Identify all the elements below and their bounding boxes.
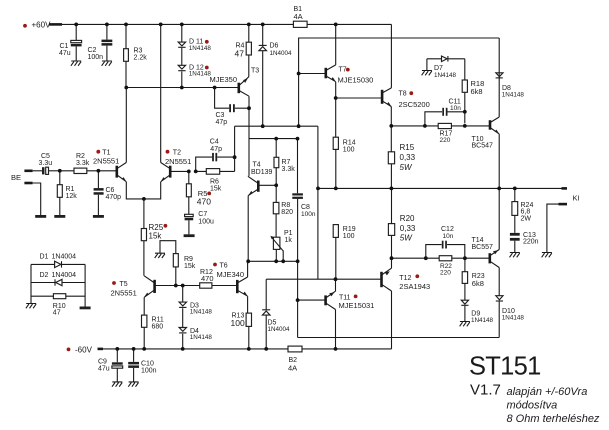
svg-text:V1.7: V1.7 bbox=[470, 382, 501, 399]
capacitor C7 bbox=[185, 211, 214, 235]
svg-text:C2: C2 bbox=[88, 47, 97, 54]
svg-text:BD139: BD139 bbox=[251, 169, 273, 176]
svg-text:C4: C4 bbox=[210, 139, 219, 146]
svg-text:3.3k: 3.3k bbox=[76, 160, 90, 167]
svg-text:BE: BE bbox=[11, 173, 21, 182]
diode D7 with ground bbox=[427, 56, 465, 79]
transistor T3 bbox=[210, 68, 260, 176]
svg-text:100n: 100n bbox=[301, 211, 316, 218]
svg-text:BC547: BC547 bbox=[472, 143, 494, 150]
svg-text:100: 100 bbox=[343, 147, 355, 154]
potentiometer P1 bbox=[270, 230, 292, 261]
wire T8 base bbox=[336, 97, 382, 99]
transistor T4 bbox=[248, 162, 276, 262]
svg-text:15k: 15k bbox=[210, 185, 222, 192]
svg-text:15k: 15k bbox=[149, 232, 163, 241]
svg-text:R25: R25 bbox=[149, 223, 164, 232]
svg-text:47u: 47u bbox=[59, 50, 71, 57]
svg-text:47u: 47u bbox=[98, 366, 110, 373]
wire inner bottom (to D10) bbox=[298, 337, 500, 339]
resistor R15 bbox=[388, 126, 415, 188]
svg-text:C1: C1 bbox=[60, 43, 69, 50]
svg-text:MJE15030: MJE15030 bbox=[338, 76, 374, 85]
resistor R6 bbox=[196, 169, 235, 193]
svg-text:1N4148: 1N4148 bbox=[189, 71, 212, 78]
svg-text:0,33: 0,33 bbox=[400, 153, 416, 162]
svg-text:220n: 220n bbox=[523, 239, 539, 246]
transistor T11 bbox=[326, 279, 375, 349]
svg-text:0,33: 0,33 bbox=[400, 224, 416, 233]
capacitor C1 bbox=[59, 24, 82, 61]
transistor T2 bbox=[144, 24, 191, 199]
svg-text:1N4004: 1N4004 bbox=[52, 272, 77, 279]
wire T8 emitter node to T10 base bbox=[391, 125, 490, 127]
wire T5 base to T6 bbox=[155, 285, 238, 287]
svg-text:2N5551: 2N5551 bbox=[165, 157, 191, 166]
capacitor C6 bbox=[94, 171, 122, 215]
diode D6 bbox=[259, 24, 292, 126]
capacitor C13 bbox=[510, 232, 539, 253]
svg-text:8 Ohm terheléshez: 8 Ohm terheléshez bbox=[507, 413, 600, 425]
wire C4R6 right column bbox=[234, 126, 236, 171]
svg-text:R20: R20 bbox=[400, 214, 415, 223]
svg-text:100: 100 bbox=[231, 318, 245, 328]
svg-text:47p: 47p bbox=[210, 146, 222, 153]
ground bar under D1 network right bbox=[80, 307, 91, 310]
svg-text:470: 470 bbox=[197, 196, 211, 206]
svg-text:1N4148: 1N4148 bbox=[471, 317, 494, 324]
capacitor C9 bbox=[98, 349, 123, 382]
diode D9 bbox=[461, 300, 493, 324]
resistor R25 bbox=[141, 199, 167, 276]
svg-text:5W: 5W bbox=[400, 163, 413, 172]
wire y126.2 to x318 column corner bbox=[317, 126, 319, 279]
wire D8/T10 collector column bbox=[498, 38, 500, 117]
fuse B2 bbox=[288, 346, 302, 372]
diode D2 bbox=[31, 272, 85, 286]
wire stub2 to ground bbox=[33, 183, 41, 215]
transistor T14 bbox=[472, 188, 500, 295]
svg-text:MJE350: MJE350 bbox=[210, 75, 238, 84]
ground bar under C7 bbox=[184, 234, 195, 237]
diode D11 bbox=[178, 24, 211, 65]
transistor T7 bbox=[326, 24, 374, 137]
resistor R2 bbox=[60, 153, 117, 174]
ground under C9 bbox=[112, 382, 122, 387]
capacitor C3 bbox=[215, 88, 249, 127]
svg-text:C6: C6 bbox=[106, 187, 115, 194]
wire y261 bias node bbox=[248, 260, 297, 262]
ground bar under R1 bbox=[54, 215, 65, 218]
wire x298 column top (y38 line riser) bbox=[299, 38, 500, 126]
resistor R18 bbox=[462, 59, 484, 112]
resistor R17 bbox=[438, 112, 465, 144]
resistor R22 bbox=[439, 256, 452, 277]
svg-text:6k8: 6k8 bbox=[471, 87, 483, 96]
svg-text:R9: R9 bbox=[184, 256, 193, 263]
svg-text:C8: C8 bbox=[301, 204, 310, 211]
resistor R14 bbox=[333, 137, 356, 188]
ground bar under stub2 bbox=[35, 215, 46, 218]
svg-text:4A: 4A bbox=[294, 12, 303, 21]
diode D5 bbox=[262, 279, 290, 349]
node +60V label bbox=[23, 21, 51, 30]
wire T2 base bbox=[170, 170, 189, 172]
transistor T12 bbox=[382, 268, 431, 349]
resistor R10 bbox=[31, 294, 85, 317]
svg-text:1N4004: 1N4004 bbox=[268, 326, 291, 333]
ground under C2 bbox=[102, 61, 112, 66]
svg-text:2.2k: 2.2k bbox=[134, 55, 148, 62]
svg-text:-60V: -60V bbox=[75, 345, 93, 354]
svg-text:470p: 470p bbox=[106, 194, 122, 201]
svg-text:2SC5200: 2SC5200 bbox=[399, 100, 430, 109]
svg-text:3.3u: 3.3u bbox=[39, 160, 53, 167]
wire C8 column to T11 base corner bbox=[297, 261, 299, 337]
svg-text:R14: R14 bbox=[343, 140, 356, 147]
svg-text:MJE340: MJE340 bbox=[217, 270, 245, 279]
svg-text:T3: T3 bbox=[251, 68, 259, 75]
svg-text:alapján +/-60Vra: alapján +/-60Vra bbox=[507, 386, 588, 398]
svg-text:15k: 15k bbox=[184, 263, 196, 270]
svg-text:R19: R19 bbox=[343, 226, 356, 233]
wire +60V input stub bbox=[49, 23, 62, 26]
svg-text:T14: T14 bbox=[472, 237, 484, 244]
svg-text:D1: D1 bbox=[40, 254, 49, 261]
svg-text:módosítva: módosítva bbox=[507, 399, 558, 411]
wire input stub lower bbox=[24, 182, 32, 185]
svg-text:10n: 10n bbox=[450, 105, 461, 112]
svg-text:2SA1943: 2SA1943 bbox=[399, 282, 430, 291]
transistor T5 bbox=[111, 276, 155, 315]
svg-text:R15: R15 bbox=[400, 143, 415, 152]
resistor R19 bbox=[333, 225, 356, 280]
svg-text:D2: D2 bbox=[40, 272, 49, 279]
svg-text:1N4148: 1N4148 bbox=[190, 334, 213, 341]
wire T12 emitter node / snubber wire bbox=[392, 257, 490, 259]
svg-text:680: 680 bbox=[152, 324, 164, 331]
wire T7 base bbox=[299, 73, 326, 75]
svg-text:2N5551: 2N5551 bbox=[93, 156, 119, 165]
svg-text:MJE15031: MJE15031 bbox=[339, 301, 375, 310]
svg-text:C7: C7 bbox=[198, 211, 207, 218]
svg-text:220: 220 bbox=[440, 137, 451, 144]
wire y138.6 VAS collector node bbox=[249, 138, 298, 140]
svg-text:1N4148: 1N4148 bbox=[502, 91, 525, 98]
wire input stub upper bbox=[24, 170, 32, 173]
svg-text:10n: 10n bbox=[443, 233, 454, 240]
capacitor C11 bbox=[425, 98, 465, 126]
fuse B1 bbox=[293, 6, 307, 27]
wire D1 network right vertical bbox=[84, 264, 86, 306]
svg-text:220: 220 bbox=[440, 270, 451, 277]
node -60V label bbox=[67, 345, 93, 354]
resistor R4 bbox=[235, 24, 252, 76]
svg-text:T7: T7 bbox=[339, 67, 347, 74]
wire T8 collector drop from rail bbox=[390, 24, 392, 88]
svg-text:R8: R8 bbox=[281, 202, 290, 209]
svg-text:100n: 100n bbox=[88, 54, 104, 61]
resistor R11 bbox=[142, 315, 164, 349]
wire stub to C5 bbox=[33, 170, 42, 172]
resistor R3 bbox=[124, 24, 148, 87]
capacitor C8 bbox=[292, 139, 316, 262]
capacitor C2 bbox=[88, 24, 113, 61]
ground under C1 bbox=[71, 61, 81, 66]
resistor R13 bbox=[231, 312, 252, 349]
diode D1 bbox=[31, 254, 85, 268]
transistor T10 bbox=[472, 117, 500, 188]
diode D12 bbox=[178, 65, 211, 88]
svg-text:1N4148: 1N4148 bbox=[434, 72, 457, 79]
wire midline output bus bbox=[318, 187, 562, 189]
svg-text:100n: 100n bbox=[141, 368, 157, 375]
svg-text:2N5551: 2N5551 bbox=[111, 289, 137, 298]
svg-text:T2: T2 bbox=[173, 150, 181, 157]
diode D4 bbox=[179, 327, 212, 349]
wire y126 node (C4R6 top to box column) bbox=[235, 125, 318, 127]
svg-text:T8: T8 bbox=[399, 91, 407, 98]
wire -60V stub bbox=[98, 348, 104, 351]
ground bar under C6 bbox=[93, 215, 104, 218]
svg-text:1N4004: 1N4004 bbox=[270, 50, 293, 57]
svg-text:D6: D6 bbox=[270, 43, 279, 50]
resistor R20 bbox=[388, 188, 416, 268]
wire KI output stub bbox=[562, 187, 568, 190]
ground under D1 network left bbox=[26, 304, 36, 309]
capacitor C12 bbox=[426, 226, 465, 258]
svg-text:R2: R2 bbox=[76, 153, 85, 160]
resistor R12 bbox=[200, 269, 214, 288]
wire T11 base bbox=[298, 299, 326, 301]
svg-text:BC557: BC557 bbox=[472, 244, 494, 251]
svg-text:R3: R3 bbox=[134, 48, 143, 55]
svg-text:4A: 4A bbox=[288, 364, 297, 373]
wire +60V rail bbox=[62, 23, 391, 25]
svg-text:6k8: 6k8 bbox=[472, 279, 484, 288]
capacitor C4 bbox=[196, 139, 235, 172]
svg-text:+60V: +60V bbox=[32, 21, 52, 30]
svg-text:T12: T12 bbox=[399, 275, 411, 282]
resistor R7 bbox=[274, 139, 295, 186]
svg-text:T4: T4 bbox=[253, 162, 261, 169]
ground under C13 bbox=[510, 253, 520, 258]
svg-text:T5: T5 bbox=[120, 281, 128, 288]
svg-text:2W: 2W bbox=[521, 215, 532, 222]
svg-text:470: 470 bbox=[201, 274, 214, 283]
ground under R9 hook bbox=[155, 253, 165, 258]
transistor T1 bbox=[93, 88, 144, 199]
ground under D7 bbox=[422, 71, 432, 76]
wire -60V rail bbox=[103, 348, 392, 350]
svg-text:12k: 12k bbox=[66, 193, 78, 200]
svg-text:T6: T6 bbox=[220, 263, 228, 270]
svg-text:1N4148: 1N4148 bbox=[190, 309, 213, 316]
svg-text:R11: R11 bbox=[152, 317, 164, 324]
svg-text:C10: C10 bbox=[141, 361, 154, 368]
svg-text:47: 47 bbox=[53, 309, 61, 316]
svg-text:1N4004: 1N4004 bbox=[52, 254, 77, 261]
diode D1 network: wire left vertical bbox=[30, 264, 32, 303]
svg-text:KI: KI bbox=[573, 194, 580, 203]
svg-text:C9: C9 bbox=[98, 359, 107, 366]
diode D10 bbox=[496, 296, 525, 338]
svg-text:3.3k: 3.3k bbox=[282, 166, 296, 173]
resistor R24 bbox=[512, 188, 534, 233]
wire KI return stub bbox=[559, 203, 568, 206]
svg-text:C12: C12 bbox=[441, 226, 454, 233]
ground under D9 bbox=[460, 322, 470, 327]
svg-text:ST151: ST151 bbox=[469, 353, 541, 381]
wire KI return to ground bbox=[547, 204, 559, 252]
resistor R9 with ground hook bbox=[160, 241, 196, 286]
svg-text:100u: 100u bbox=[198, 219, 214, 226]
svg-text:47p: 47p bbox=[216, 119, 228, 126]
svg-text:47: 47 bbox=[235, 49, 245, 59]
resistor R1 bbox=[57, 171, 77, 215]
svg-text:R1: R1 bbox=[66, 186, 75, 193]
svg-text:1N4148: 1N4148 bbox=[189, 45, 212, 52]
svg-text:5W: 5W bbox=[400, 234, 413, 243]
transistor T6 bbox=[213, 261, 248, 313]
svg-text:820: 820 bbox=[281, 209, 293, 216]
svg-text:1N4148: 1N4148 bbox=[502, 314, 525, 321]
ground under KI return bbox=[542, 253, 552, 258]
svg-text:C3: C3 bbox=[216, 112, 225, 119]
transistor T8 bbox=[382, 88, 430, 126]
wire y88 node (R3/T1 coll to T3 base) bbox=[126, 87, 239, 89]
svg-text:100: 100 bbox=[343, 233, 355, 240]
diode D3 bbox=[179, 286, 212, 328]
diode D8 bbox=[496, 73, 525, 99]
svg-text:P1: P1 bbox=[284, 230, 293, 237]
resistor R23 bbox=[462, 258, 485, 300]
title block bbox=[469, 353, 600, 425]
resistor R5 bbox=[186, 171, 211, 214]
capacitor C5 bbox=[39, 153, 60, 175]
resistor R8 bbox=[273, 185, 293, 237]
capacitor C10 bbox=[128, 349, 156, 382]
svg-text:1k: 1k bbox=[285, 237, 293, 244]
ground under C10 bbox=[128, 382, 138, 387]
svg-text:C5: C5 bbox=[41, 153, 50, 160]
wire y279 driver/output base wire bbox=[266, 278, 381, 280]
